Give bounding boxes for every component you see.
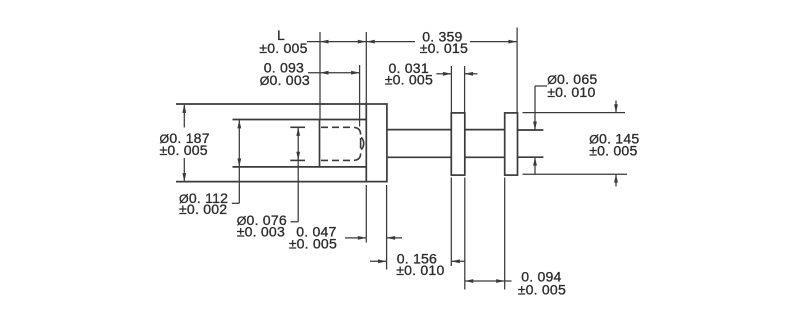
svg-text:±0. 005: ±0. 005 (160, 142, 208, 158)
svg-text:±0. 003: ±0. 003 (237, 223, 285, 239)
svg-text:±0. 010: ±0. 010 (396, 262, 444, 278)
svg-text:±0. 005: ±0. 005 (259, 40, 307, 56)
svg-text:±0. 002: ±0. 002 (179, 201, 227, 217)
svg-text:±0. 005: ±0. 005 (289, 236, 337, 252)
svg-text:±0. 005: ±0. 005 (385, 71, 433, 87)
svg-text:±0. 010: ±0. 010 (547, 84, 595, 100)
svg-text:Ø0. 003: Ø0. 003 (260, 72, 310, 88)
svg-text:±0. 005: ±0. 005 (589, 143, 637, 159)
svg-text:±0. 005: ±0. 005 (518, 282, 566, 298)
svg-text:±0. 015: ±0. 015 (420, 40, 468, 56)
